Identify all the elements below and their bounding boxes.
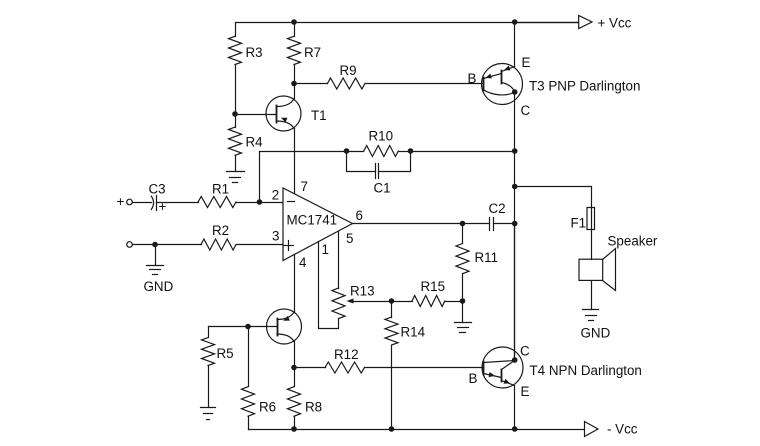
wire R12 to T4 base bbox=[365, 367, 484, 369]
wire R5 top bbox=[208, 327, 210, 338]
resistor R12 bbox=[325, 362, 365, 373]
wire T2 emitter bbox=[294, 342, 296, 368]
wire R3 top stub bbox=[235, 23, 237, 37]
node pin2 feedback bbox=[257, 199, 263, 205]
R13 wiper arrow bbox=[347, 299, 392, 304]
node R14 bottom rail bbox=[389, 426, 395, 432]
node R3 R4 T1 base bbox=[232, 111, 238, 117]
svg-text:R5: R5 bbox=[217, 346, 234, 361]
svg-text:T4 NPN Darlington: T4 NPN Darlington bbox=[530, 363, 642, 378]
wire T3 emitter up bbox=[514, 23, 516, 67]
svg-text:1: 1 bbox=[322, 242, 329, 257]
svg-text:R1: R1 bbox=[212, 182, 229, 197]
node R7 top rail bbox=[291, 19, 297, 25]
op-amp plus sign bbox=[284, 241, 294, 251]
node R13 wiper R14 bbox=[389, 298, 395, 304]
wire T1 emitter to pin7 bbox=[294, 129, 296, 194]
wire T4 emitter down bbox=[514, 386, 516, 430]
svg-text:MC1741: MC1741 bbox=[287, 213, 338, 228]
wire feedback vertical to pin2 bbox=[259, 152, 261, 203]
svg-text:GND: GND bbox=[581, 326, 611, 341]
wire output rail mid bbox=[514, 152, 516, 361]
wire bottom rail bbox=[249, 429, 585, 431]
wire input1 to C3 bbox=[133, 202, 152, 204]
node T4 emitter rail bbox=[512, 426, 518, 432]
-Vcc arrow bbox=[585, 422, 599, 437]
input terminal 2 bbox=[127, 242, 133, 248]
svg-text:R8: R8 bbox=[305, 400, 322, 415]
capacitor C2 bbox=[490, 218, 494, 231]
wire R2 to pin3 bbox=[237, 244, 284, 246]
wire speaker branch bbox=[515, 187, 592, 260]
wire R8 bottom bbox=[294, 417, 296, 430]
ground input2 bbox=[147, 266, 164, 275]
op-amp minus sign bbox=[288, 201, 295, 203]
svg-text:R11: R11 bbox=[475, 250, 499, 265]
wire T2 base bbox=[249, 326, 278, 328]
capacitor C3 bbox=[151, 196, 156, 211]
svg-text:4: 4 bbox=[299, 255, 307, 270]
wire R9 left bbox=[295, 83, 328, 85]
wire R14 bottom to rail bbox=[391, 346, 393, 430]
capacitor C1 bbox=[376, 164, 379, 179]
node T2 emitter R12 R8 bbox=[291, 365, 297, 371]
wire R15 right stub bbox=[445, 301, 463, 303]
svg-text:R9: R9 bbox=[340, 63, 357, 78]
svg-text:R2: R2 bbox=[212, 223, 229, 238]
wire T1 collector stub bbox=[294, 84, 296, 99]
wire feedback to output rail bbox=[411, 151, 515, 153]
node R10 C1 right bbox=[408, 148, 414, 154]
wire R8 top bbox=[294, 368, 296, 387]
svg-text:+: + bbox=[159, 199, 167, 214]
svg-text:B: B bbox=[469, 371, 478, 386]
svg-text:GND: GND bbox=[144, 279, 174, 294]
svg-text:R6: R6 bbox=[259, 400, 276, 415]
wire pin4 bbox=[294, 255, 296, 313]
wire T2 base to R5 bbox=[209, 326, 249, 328]
resistor R8 bbox=[288, 387, 301, 417]
transistor T2 bbox=[267, 309, 302, 344]
fuse F1 bbox=[587, 208, 595, 230]
wire speaker to ground bbox=[591, 281, 593, 310]
node T4 collectors bbox=[512, 357, 518, 363]
resistor R9 bbox=[327, 78, 365, 89]
wire C1 right branch bbox=[379, 152, 411, 172]
wire R3 bottom to node bbox=[235, 65, 237, 115]
ground speaker bbox=[583, 310, 599, 321]
node T2 base R5 R6 bbox=[245, 324, 251, 330]
svg-text:+ Vcc: + Vcc bbox=[598, 16, 632, 31]
ground R4 bbox=[227, 172, 245, 183]
svg-text:R7: R7 bbox=[304, 45, 321, 60]
resistor R11 bbox=[456, 244, 469, 274]
wire R9 to T3 base bbox=[366, 83, 484, 85]
wire R4 top bbox=[235, 115, 237, 128]
resistor R13 bbox=[332, 288, 345, 319]
svg-text:R14: R14 bbox=[401, 325, 426, 340]
wire input2 to R2 bbox=[133, 244, 202, 246]
wire R12 left stub bbox=[295, 367, 326, 369]
wire R15 ground stub bbox=[462, 302, 464, 323]
svg-text:R10: R10 bbox=[369, 129, 394, 144]
svg-text:R4: R4 bbox=[246, 135, 264, 150]
svg-text:E: E bbox=[521, 384, 530, 399]
svg-text:- Vcc: - Vcc bbox=[607, 422, 638, 437]
resistor R10 bbox=[364, 146, 399, 157]
wire R11 top stub bbox=[462, 224, 464, 244]
wire T4 collector up bbox=[514, 224, 516, 361]
wire input2 ground stub bbox=[155, 245, 157, 266]
transistor T3 bbox=[482, 64, 523, 105]
wire C1 branch bbox=[347, 152, 376, 172]
svg-text:R12: R12 bbox=[334, 347, 359, 362]
wire R6 top bbox=[248, 327, 250, 387]
node R7 R9 T1 collector bbox=[291, 81, 297, 87]
node R15 R11 ground bbox=[460, 298, 466, 304]
svg-text:F1: F1 bbox=[571, 216, 587, 231]
svg-text:B: B bbox=[468, 71, 477, 86]
wire top rail to +Vcc bbox=[515, 22, 579, 24]
svg-text:C: C bbox=[520, 344, 530, 359]
wire R7 top stub bbox=[294, 23, 296, 37]
wire R14 top stub bbox=[391, 302, 393, 318]
wire R15 left stub bbox=[392, 301, 413, 303]
node feedback rail bbox=[512, 148, 518, 154]
node speaker branch rail bbox=[512, 184, 518, 190]
svg-text:3: 3 bbox=[272, 229, 279, 244]
wire C2 to rail bbox=[494, 223, 515, 225]
svg-text:5: 5 bbox=[346, 231, 353, 246]
node R8 bottom rail bbox=[291, 426, 297, 432]
speaker bbox=[579, 249, 616, 291]
resistor R1 bbox=[198, 197, 236, 208]
resistor R6 bbox=[242, 387, 255, 417]
svg-text:2: 2 bbox=[272, 188, 279, 203]
wire R11 bottom stub bbox=[462, 274, 464, 302]
wire T1 base bbox=[236, 114, 277, 116]
node T3 emitter rail bbox=[512, 19, 518, 25]
svg-text:E: E bbox=[522, 55, 531, 70]
wire R10 left stub bbox=[347, 151, 364, 153]
wire pin6 output bbox=[353, 223, 490, 225]
resistor R4 bbox=[229, 127, 242, 155]
svg-text:R15: R15 bbox=[421, 279, 446, 294]
wire T3 collector down bbox=[514, 93, 516, 152]
resistor R3 bbox=[229, 36, 242, 64]
wire R1 to pin2 bbox=[237, 202, 284, 204]
resistor R14 bbox=[385, 317, 398, 345]
svg-text:6: 6 bbox=[356, 208, 363, 223]
svg-text:R3: R3 bbox=[246, 45, 263, 60]
svg-text:T3 PNP Darlington: T3 PNP Darlington bbox=[529, 79, 640, 94]
wire R13 bottom to pin1 bbox=[319, 242, 339, 329]
wire R7 bottom to node bbox=[294, 65, 296, 84]
node C2 rail bbox=[512, 221, 518, 227]
wire C3 to R1 bbox=[157, 202, 199, 204]
op-amp U1 MC1741 bbox=[283, 188, 353, 261]
svg-text:R13: R13 bbox=[350, 284, 375, 299]
node pin6 R11 bbox=[460, 221, 466, 227]
wire R10 right stub bbox=[399, 151, 411, 153]
wire pin5 bbox=[338, 232, 340, 289]
resistor R7 bbox=[288, 36, 301, 64]
input terminal 1 bbox=[127, 199, 133, 205]
ground R5 bbox=[201, 408, 216, 420]
svg-text:C: C bbox=[521, 103, 531, 118]
ground R15 bbox=[455, 323, 472, 333]
node R10 C1 left bbox=[344, 148, 350, 154]
svg-text:C1: C1 bbox=[374, 181, 391, 196]
resistor R5 bbox=[202, 338, 215, 366]
svg-text:C3: C3 bbox=[149, 182, 166, 197]
+Vcc arrow bbox=[579, 16, 592, 29]
svg-text:T1: T1 bbox=[311, 108, 327, 123]
wire top rail bbox=[236, 22, 579, 24]
wire R5 to ground bbox=[208, 366, 210, 408]
resistor R2 bbox=[201, 239, 236, 250]
svg-text:Speaker: Speaker bbox=[608, 234, 658, 249]
transistor T4 bbox=[482, 347, 523, 388]
wire R6 bottom bbox=[248, 417, 250, 430]
wire R4 to ground bbox=[235, 156, 237, 172]
node input2 ground bbox=[152, 242, 158, 248]
node T3 collectors bbox=[512, 89, 518, 95]
transistor T1 bbox=[266, 96, 301, 131]
resistor R15 bbox=[412, 296, 445, 307]
svg-text:7: 7 bbox=[301, 179, 308, 194]
svg-text:+: + bbox=[117, 194, 125, 209]
wire feedback horizontal bbox=[260, 151, 347, 153]
svg-text:C2: C2 bbox=[489, 201, 506, 216]
